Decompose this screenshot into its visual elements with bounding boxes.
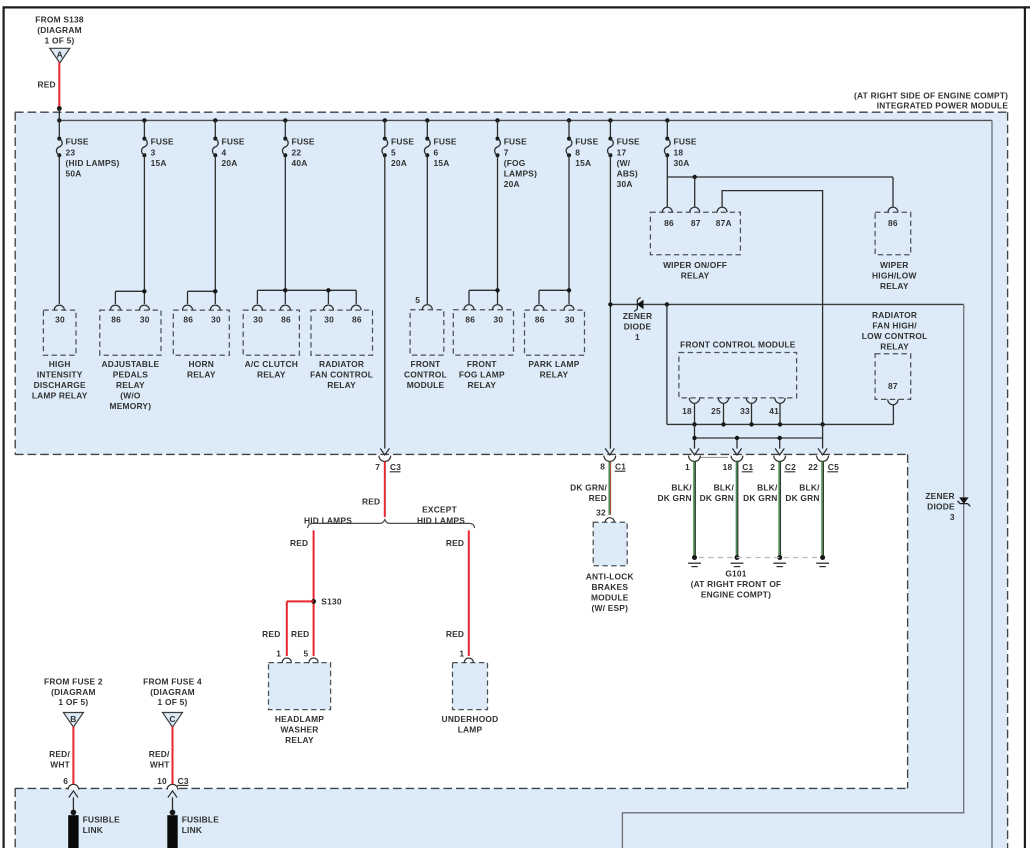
svg-text:FUSIBLE: FUSIBLE: [83, 814, 121, 824]
svg-text:BLK/: BLK/: [799, 482, 820, 492]
svg-text:86: 86: [111, 314, 121, 324]
svg-text:LAMPS): LAMPS): [504, 168, 537, 178]
svg-text:RELAY: RELAY: [327, 380, 356, 390]
svg-text:ZENER: ZENER: [623, 311, 652, 321]
svg-text:3: 3: [950, 512, 955, 522]
svg-text:FUSE: FUSE: [575, 137, 598, 147]
svg-text:C1: C1: [615, 462, 626, 472]
svg-text:18: 18: [682, 406, 692, 416]
svg-text:B: B: [70, 714, 76, 724]
svg-text:RED: RED: [262, 629, 280, 639]
svg-text:PEDALS: PEDALS: [113, 369, 148, 379]
svg-text:HIGH/LOW: HIGH/LOW: [872, 270, 917, 280]
svg-text:6: 6: [434, 147, 439, 157]
svg-text:87: 87: [691, 218, 701, 228]
svg-text:LINK: LINK: [83, 825, 103, 835]
svg-text:25: 25: [711, 406, 721, 416]
svg-text:FUSE: FUSE: [617, 137, 640, 147]
svg-text:30A: 30A: [674, 158, 690, 168]
svg-text:RELAY: RELAY: [681, 270, 710, 280]
svg-text:MODULE: MODULE: [591, 593, 629, 603]
svg-text:30A: 30A: [617, 179, 633, 189]
svg-text:RELAY: RELAY: [467, 380, 496, 390]
svg-text:FROM S138: FROM S138: [35, 15, 84, 25]
svg-text:C3: C3: [390, 462, 401, 472]
svg-text:ZENER: ZENER: [925, 491, 954, 501]
svg-text:RED: RED: [291, 629, 309, 639]
svg-text:HID LAMPS: HID LAMPS: [304, 515, 352, 525]
svg-text:BLK/: BLK/: [671, 482, 692, 492]
svg-text:RELAY: RELAY: [116, 380, 145, 390]
svg-text:UNDERHOOD: UNDERHOOD: [442, 714, 499, 724]
svg-text:DIODE: DIODE: [927, 501, 955, 511]
svg-text:20A: 20A: [222, 158, 238, 168]
svg-text:HEADLAMP: HEADLAMP: [275, 714, 324, 724]
svg-text:BLK/: BLK/: [714, 482, 735, 492]
svg-text:41: 41: [769, 406, 779, 416]
svg-text:C1: C1: [742, 462, 753, 472]
svg-text:(W/ ESP): (W/ ESP): [591, 603, 628, 613]
svg-text:WASHER: WASHER: [280, 724, 318, 734]
svg-text:(AT RIGHT FRONT OF: (AT RIGHT FRONT OF: [691, 579, 782, 589]
svg-text:DK GRN: DK GRN: [700, 493, 734, 503]
svg-text:RADIATOR: RADIATOR: [872, 310, 917, 320]
svg-text:FRONT: FRONT: [467, 359, 498, 369]
svg-text:1 OF 5): 1 OF 5): [45, 35, 75, 45]
svg-text:30: 30: [565, 314, 575, 324]
svg-text:FRONT CONTROL MODULE: FRONT CONTROL MODULE: [680, 340, 796, 350]
svg-text:RED: RED: [290, 538, 308, 548]
svg-text:FAN CONTROL: FAN CONTROL: [310, 369, 373, 379]
svg-text:7: 7: [375, 462, 380, 472]
svg-text:33: 33: [740, 406, 750, 416]
svg-text:7: 7: [504, 147, 509, 157]
svg-text:3: 3: [151, 147, 156, 157]
svg-text:DK GRN: DK GRN: [657, 493, 691, 503]
svg-text:HIGH: HIGH: [49, 359, 71, 369]
svg-text:(DIAGRAM: (DIAGRAM: [150, 687, 195, 697]
svg-text:30: 30: [55, 314, 65, 324]
svg-text:86: 86: [352, 314, 362, 324]
svg-text:30: 30: [494, 314, 504, 324]
svg-text:RED: RED: [37, 80, 55, 90]
svg-text:G101: G101: [725, 569, 746, 579]
svg-text:FROM FUSE 4: FROM FUSE 4: [143, 676, 202, 686]
svg-text:(DIAGRAM: (DIAGRAM: [37, 25, 82, 35]
svg-text:15A: 15A: [434, 158, 450, 168]
svg-text:C3: C3: [178, 776, 189, 786]
svg-text:5: 5: [415, 295, 420, 305]
svg-text:20A: 20A: [504, 179, 520, 189]
svg-text:HID LAMPS: HID LAMPS: [417, 516, 465, 526]
svg-text:WIPER: WIPER: [880, 260, 909, 270]
svg-text:22: 22: [292, 147, 302, 157]
svg-text:ABS): ABS): [617, 168, 638, 178]
svg-text:FUSE: FUSE: [391, 137, 414, 147]
svg-text:86: 86: [888, 218, 898, 228]
svg-text:DK GRN: DK GRN: [785, 493, 819, 503]
svg-text:FUSE: FUSE: [434, 137, 457, 147]
svg-text:30: 30: [211, 314, 221, 324]
svg-text:LAMP: LAMP: [458, 724, 483, 734]
svg-text:RED: RED: [446, 538, 464, 548]
svg-text:DISCHARGE: DISCHARGE: [34, 380, 86, 390]
svg-text:1: 1: [276, 649, 281, 659]
svg-text:40A: 40A: [292, 158, 308, 168]
svg-text:87: 87: [888, 381, 898, 391]
svg-text:FUSE: FUSE: [66, 137, 89, 147]
svg-text:5: 5: [391, 147, 396, 157]
svg-text:10: 10: [157, 776, 167, 786]
svg-text:4: 4: [222, 147, 227, 157]
svg-text:S130: S130: [321, 597, 342, 607]
svg-text:8: 8: [575, 147, 580, 157]
svg-text:86: 86: [664, 218, 674, 228]
svg-text:RELAY: RELAY: [285, 735, 314, 745]
svg-text:RELAY: RELAY: [187, 369, 216, 379]
svg-text:ANTI-LOCK: ANTI-LOCK: [586, 572, 634, 582]
svg-text:FROM FUSE 2: FROM FUSE 2: [44, 676, 103, 686]
svg-text:CONTROL: CONTROL: [404, 369, 447, 379]
svg-text:RELAY: RELAY: [880, 281, 909, 291]
svg-text:RED/: RED/: [49, 749, 70, 759]
svg-text:RADIATOR: RADIATOR: [319, 359, 364, 369]
svg-text:BRAKES: BRAKES: [591, 582, 628, 592]
svg-text:(AT RIGHT SIDE OF ENGINE COMPT: (AT RIGHT SIDE OF ENGINE COMPT): [854, 91, 1008, 101]
svg-text:A: A: [57, 50, 63, 60]
svg-text:FAN HIGH/: FAN HIGH/: [872, 321, 917, 331]
svg-text:DK GRN: DK GRN: [743, 493, 777, 503]
svg-text:FRONT: FRONT: [411, 359, 442, 369]
svg-text:32: 32: [596, 508, 606, 518]
svg-text:(W/O: (W/O: [120, 390, 141, 400]
svg-text:20A: 20A: [391, 158, 407, 168]
svg-text:WIPER ON/OFF: WIPER ON/OFF: [663, 260, 727, 270]
svg-text:2: 2: [770, 462, 775, 472]
svg-text:ADJUSTABLE: ADJUSTABLE: [101, 359, 159, 369]
svg-text:1 OF 5): 1 OF 5): [58, 697, 88, 707]
svg-text:86: 86: [465, 314, 475, 324]
svg-text:DIODE: DIODE: [624, 322, 652, 332]
svg-text:15A: 15A: [575, 158, 591, 168]
svg-text:86: 86: [281, 314, 291, 324]
svg-text:MEMORY): MEMORY): [110, 401, 152, 411]
svg-text:18: 18: [674, 147, 684, 157]
svg-text:RELAY: RELAY: [257, 369, 286, 379]
svg-text:RED: RED: [589, 493, 607, 503]
svg-text:C: C: [169, 714, 175, 724]
svg-text:22: 22: [808, 462, 818, 472]
svg-text:1: 1: [635, 332, 640, 342]
svg-text:RED/: RED/: [149, 749, 170, 759]
svg-text:87A: 87A: [716, 218, 732, 228]
svg-text:FUSE: FUSE: [222, 137, 245, 147]
svg-text:6: 6: [63, 776, 68, 786]
svg-text:30: 30: [253, 314, 263, 324]
svg-text:LINK: LINK: [182, 825, 202, 835]
svg-text:30: 30: [324, 314, 334, 324]
svg-text:(W/: (W/: [617, 158, 631, 168]
svg-text:(DIAGRAM: (DIAGRAM: [51, 687, 96, 697]
svg-text:MODULE: MODULE: [407, 380, 445, 390]
svg-text:ENGINE COMPT): ENGINE COMPT): [701, 590, 771, 600]
svg-text:INTEGRATED POWER MODULE: INTEGRATED POWER MODULE: [877, 100, 1009, 110]
svg-text:LAMP RELAY: LAMP RELAY: [32, 390, 88, 400]
svg-text:EXCEPT: EXCEPT: [422, 504, 457, 514]
svg-text:23: 23: [66, 147, 76, 157]
svg-text:INTENSITY: INTENSITY: [37, 369, 83, 379]
svg-text:FUSIBLE: FUSIBLE: [182, 814, 220, 824]
svg-text:FOG LAMP: FOG LAMP: [459, 369, 505, 379]
svg-text:WHT: WHT: [50, 760, 70, 770]
svg-text:1 OF 5): 1 OF 5): [158, 697, 188, 707]
svg-text:BLK/: BLK/: [757, 482, 778, 492]
svg-text:FUSE: FUSE: [292, 137, 315, 147]
svg-text:17: 17: [617, 147, 627, 157]
svg-text:LOW CONTROL: LOW CONTROL: [862, 331, 928, 341]
svg-text:86: 86: [535, 314, 545, 324]
svg-text:(HID LAMPS): (HID LAMPS): [66, 158, 120, 168]
svg-text:50A: 50A: [66, 168, 82, 178]
svg-text:A/C CLUTCH: A/C CLUTCH: [245, 359, 298, 369]
svg-text:C2: C2: [785, 462, 796, 472]
svg-text:HORN: HORN: [189, 359, 215, 369]
svg-text:30: 30: [140, 314, 150, 324]
svg-text:1: 1: [685, 462, 690, 472]
svg-text:FUSE: FUSE: [151, 137, 174, 147]
svg-text:FUSE: FUSE: [674, 137, 697, 147]
svg-text:RED: RED: [446, 629, 464, 639]
svg-text:1: 1: [459, 649, 464, 659]
svg-text:5: 5: [304, 649, 309, 659]
svg-text:86: 86: [183, 314, 193, 324]
svg-text:PARK LAMP: PARK LAMP: [528, 359, 579, 369]
svg-text:RELAY: RELAY: [880, 342, 909, 352]
svg-text:RELAY: RELAY: [540, 369, 569, 379]
svg-text:FUSE: FUSE: [504, 137, 527, 147]
svg-text:RED: RED: [362, 497, 380, 507]
svg-text:WHT: WHT: [150, 760, 170, 770]
svg-text:DK GRN/: DK GRN/: [570, 482, 607, 492]
svg-text:18: 18: [723, 462, 733, 472]
svg-text:15A: 15A: [151, 158, 167, 168]
svg-text:C5: C5: [828, 462, 839, 472]
svg-text:8: 8: [600, 462, 605, 472]
svg-text:(FOG: (FOG: [504, 158, 526, 168]
